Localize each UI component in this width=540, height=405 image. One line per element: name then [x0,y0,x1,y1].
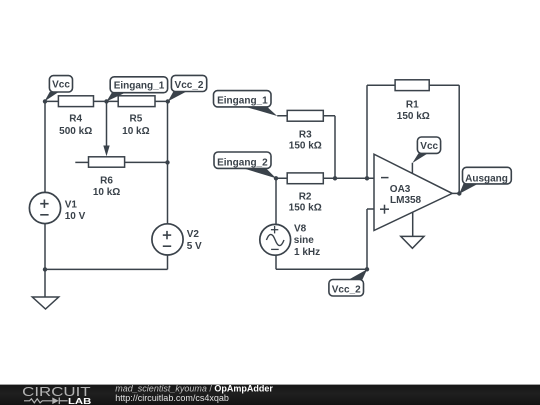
svg-text:V8: V8 [294,224,307,235]
svg-text:150 kΩ: 150 kΩ [397,111,430,122]
svg-text:OA3: OA3 [390,184,411,195]
svg-text:LAB: LAB [68,396,91,405]
svg-text:R2: R2 [299,191,312,202]
svg-text:R1: R1 [406,99,419,110]
svg-text:Vcc_2: Vcc_2 [175,80,204,91]
svg-text:http://circuitlab.com/cs4xqab: http://circuitlab.com/cs4xqab [115,393,229,403]
svg-text:V2: V2 [187,229,200,240]
svg-text:V1: V1 [65,199,78,210]
svg-text:Eingang_1: Eingang_1 [114,80,165,91]
svg-text:Vcc_2: Vcc_2 [332,284,361,295]
svg-text:10 V: 10 V [65,211,86,222]
svg-text:10 kΩ: 10 kΩ [93,187,120,198]
svg-text:Vcc: Vcc [420,141,438,152]
svg-text:Vcc: Vcc [52,80,70,91]
svg-text:Eingang_2: Eingang_2 [217,157,268,168]
svg-text:R5: R5 [130,114,143,125]
svg-text:sine: sine [294,235,314,246]
svg-text:5 V: 5 V [187,241,202,252]
svg-text:Ausgang: Ausgang [465,173,508,184]
svg-text:500 kΩ: 500 kΩ [59,126,92,137]
svg-text:R4: R4 [69,114,82,125]
svg-text:mad_scientist_kyouma / OpAmpAd: mad_scientist_kyouma / OpAmpAdder [115,383,273,393]
svg-text:150 kΩ: 150 kΩ [289,202,322,213]
svg-text:150 kΩ: 150 kΩ [289,140,322,151]
svg-text:R6: R6 [100,175,113,186]
svg-text:LM358: LM358 [390,195,422,206]
svg-text:R3: R3 [299,129,312,140]
svg-text:10 kΩ: 10 kΩ [122,126,149,137]
svg-text:1 kHz: 1 kHz [294,247,320,258]
svg-text:Eingang_1: Eingang_1 [217,96,268,107]
